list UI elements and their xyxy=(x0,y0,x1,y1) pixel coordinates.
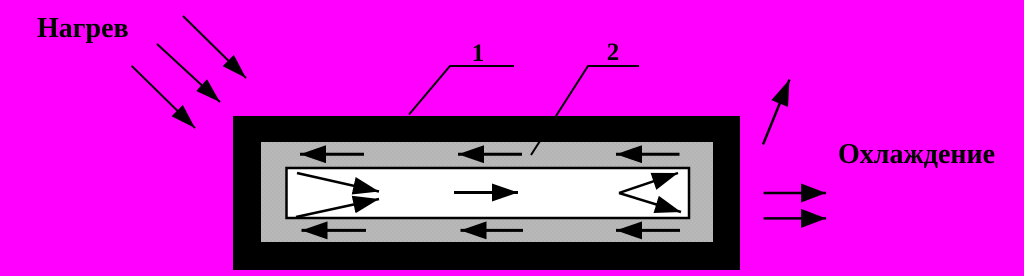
label 2 leader line xyxy=(531,66,639,155)
cooling arrow right lower xyxy=(764,217,827,220)
heating arrow 3 xyxy=(132,66,195,128)
wick top arrow middle xyxy=(458,153,522,156)
vapor arrow upper-right slanted xyxy=(619,173,678,193)
vapor arrow lower-left slanted xyxy=(296,199,379,217)
label 1 leader line xyxy=(409,66,514,115)
vapor arrow lower-right slanted xyxy=(619,193,681,212)
wick top arrow right xyxy=(616,153,680,156)
svg-text:1: 1 xyxy=(472,40,485,67)
wick bottom arrow middle xyxy=(461,229,524,232)
svg-text:2: 2 xyxy=(607,39,620,66)
cooling arrow right upper xyxy=(764,192,827,195)
cooling arrow up-right xyxy=(763,80,790,145)
wick bottom arrow right xyxy=(616,229,680,232)
outer casing (black) xyxy=(233,116,740,270)
svg-text:Охлаждение: Охлаждение xyxy=(838,139,995,170)
wick bottom arrow left xyxy=(302,229,367,232)
heating arrow 1 xyxy=(183,16,246,78)
vapor channel (white) xyxy=(287,168,690,218)
wick top arrow left xyxy=(300,153,364,156)
vapor arrow upper-left slanted xyxy=(297,173,379,192)
vapor arrow center xyxy=(454,191,518,194)
svg-text:Нагрев: Нагрев xyxy=(37,13,129,44)
wick layer (gray dotted) xyxy=(261,142,713,242)
heating arrow 2 xyxy=(157,44,220,102)
